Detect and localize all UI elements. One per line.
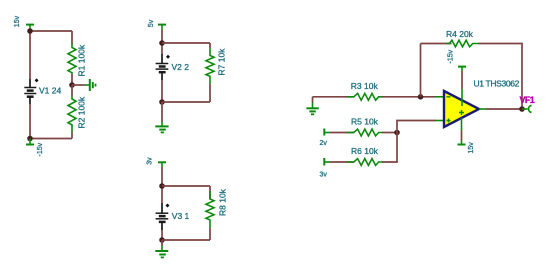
wire to ground [72,84,85,86]
wire output [479,108,522,110]
wire to noninverting pin [435,120,444,122]
node 5v jumper label [148,19,166,30]
svg-text:5v: 5v [148,19,155,27]
svg-text:3v: 3v [320,172,328,179]
wire inverting node to opamp (pin) [435,96,444,98]
resistor R8 10k [206,188,228,228]
wire battery to bottom node [161,230,163,240]
node junction dot [159,40,165,46]
node bottom junction dot [159,99,165,105]
svg-text:V1 24: V1 24 [39,86,61,96]
wire top-left vertical [29,30,31,79]
svg-text:V3 1: V3 1 [172,211,190,221]
resistor R7 10k [206,48,227,84]
node 15v jumper label [14,15,34,30]
wire R6 up to summing node [382,121,436,163]
svg-text:R7 10k: R7 10k [217,48,227,76]
terminal 3v [320,158,331,179]
wire top horizontal [162,185,210,187]
node summing junction dot [394,130,400,136]
node A junction dot [27,28,33,34]
terminal 2v [320,129,331,148]
svg-text:15v: 15v [468,142,475,154]
node junction dot [159,183,165,189]
node inverting junction dot [418,94,424,100]
wire top horizontal [162,42,210,44]
wire battery to bottom node [161,80,163,102]
wire top horizontal [30,30,72,32]
battery V1 [24,78,38,104]
svg-text:R8 10k: R8 10k [218,188,228,216]
wire R3 to inverting node [382,96,436,98]
ground at R3 input [306,97,318,115]
svg-text:U1 THS3062: U1 THS3062 [474,79,520,89]
svg-text:R2 100k: R2 100k [77,96,87,128]
svg-text:VF1: VF1 [520,95,535,105]
wire node to ground [161,240,163,246]
svg-text:R3 10k: R3 10k [351,81,379,91]
node output junction dot [519,106,525,112]
wire bottom horizontal [30,138,72,140]
voltage pin VF1 [520,95,535,113]
wire R2 to bottom [71,133,73,139]
wire feedback up [420,44,422,97]
wire R5 to summing node [382,132,397,134]
wire bottom horizontal [162,239,210,241]
wire 3v to R6 [330,161,354,163]
resistor R6 10k [347,146,383,165]
wire right branch upper [71,31,73,44]
wire battery to bottom [29,104,31,139]
svg-text:-15v: -15v [448,49,455,63]
resistor R5 10k [347,116,383,136]
wire top to R4 [421,43,452,45]
wire 2v to R5 [330,132,354,134]
svg-text:R4 20k: R4 20k [446,29,474,39]
wire R8 to bottom [209,228,211,240]
ground [155,246,168,257]
svg-text:R5 10k: R5 10k [351,116,379,126]
resistor R2 100k [68,85,87,133]
resistor R1 100k [68,43,87,85]
battery V2 [156,54,170,80]
svg-text:R6 10k: R6 10k [351,146,379,156]
wire right branch [209,186,211,199]
resistor R3 10k [347,81,383,100]
node bottom junction dot [159,237,165,243]
ground [155,122,168,132]
svg-text:V2 2: V2 2 [172,62,190,72]
wire node to ground [161,102,163,122]
wire R4 to output column [479,44,523,110]
wire tap to node [161,30,163,54]
svg-text:3v: 3v [147,157,154,165]
node -15v jumper label [26,136,44,157]
wire right branch [209,43,211,48]
resistor R4 20k [446,29,479,47]
svg-text:15v: 15v [14,15,21,27]
wire tap to node [161,167,163,203]
wire bottom horizontal [162,101,210,103]
svg-text:2v: 2v [320,140,328,147]
opamp supply top wire [448,49,467,89]
node 3v jumper label [147,157,167,167]
op-amp U1 THS3062 [444,89,479,127]
svg-text:R1 100k: R1 100k [77,44,87,76]
wire ground to R3 [313,96,355,98]
node mid junction dot [69,82,75,88]
svg-text:-15v: -15v [37,142,44,156]
ground (right-facing) [85,79,96,91]
opamp supply bottom wire [458,118,476,154]
wire R7 to bottom [209,84,211,102]
battery V3 [156,203,170,230]
